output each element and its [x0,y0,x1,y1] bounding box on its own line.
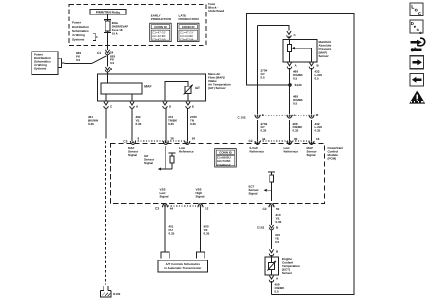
svg-text:0.5: 0.5 [261,76,265,79]
C102 pin L [287,115,292,118]
IAT thermistor [185,86,191,93]
svg-text:459: 459 [275,283,280,286]
PCM internal horiz to pullup [161,168,173,170]
relay PWR/TRN Relay box [90,9,126,14]
connector dotted link C2 row [260,140,310,142]
svg-text:0.35: 0.35 [88,122,94,125]
MAF pin A [130,102,134,105]
svg-text:C3=80 GY: C3=80 GY [217,163,231,166]
ECT pin A connector [269,276,273,279]
arrow IAT signal [158,168,161,171]
pin 90 [287,141,292,144]
connector C1 [105,50,109,53]
svg-text:34: 34 [262,137,265,140]
svg-text:Sensor: Sensor [282,272,292,275]
wire IAT to pin E [187,93,189,101]
svg-text:Module: Module [328,154,339,157]
svg-text:451: 451 [88,116,93,119]
pin 34 [255,141,260,144]
svg-text:410: 410 [275,234,280,237]
svg-text:15 A: 15 A [112,32,118,35]
svg-text:Reference: Reference [284,150,299,153]
svg-text:Signal: Signal [307,154,316,157]
svg-text:432: 432 [315,70,320,73]
svg-text:L: L [411,4,414,10]
wire 469 OG/BK pin A to C102 L [289,68,291,115]
wire 492 MAF signal [131,108,133,141]
svg-text:EARLY: EARLY [151,14,161,17]
svg-text:0.5: 0.5 [275,240,279,243]
svg-text:Manifold: Manifold [319,41,331,44]
svg-text:Systems: Systems [34,67,46,70]
svg-text:Low: Low [179,147,185,150]
pin 8 [131,141,136,144]
svg-text:472: 472 [168,116,173,119]
svg-text:C2: C2 [249,139,253,143]
svg-text:SNSR/EVAP: SNSR/EVAP [112,25,129,28]
wire C1 to MAF connector [107,55,109,67]
wire 469 OG/BK 0.35 to pin 90 [289,120,291,141]
svg-text:0.5: 0.5 [315,77,319,80]
C102 pin K [255,115,260,118]
svg-text:Sensor: Sensor [128,150,138,153]
svg-text:BK/WH: BK/WH [88,119,98,122]
MAP pin C connector [287,31,291,34]
svg-text:C 102: C 102 [238,116,246,119]
svg-text:0.35: 0.35 [293,129,299,132]
pin 12 [198,204,203,207]
wire 400 YE [200,207,202,252]
MAF pin D [163,102,167,105]
svg-text:C2=42 BK: C2=42 BK [152,34,165,37]
svg-text:PK: PK [110,58,114,61]
svg-text:0.35: 0.35 [276,220,282,223]
icon LOC [410,3,423,16]
wire 459 low reference routing loop [247,14,355,295]
wire 472 IAT signal [165,108,167,141]
svg-text:Intake: Intake [208,80,217,83]
svg-text:0.35: 0.35 [169,232,175,235]
svg-text:C: C [294,34,296,37]
svg-text:432: 432 [315,122,320,125]
svg-text:C1=58 BU: C1=58 BU [217,156,231,159]
wire 2704 GY 0.35 to pin 34 [257,120,259,141]
svg-text:Distribution: Distribution [72,25,89,28]
svg-text:Temperature: Temperature [282,265,300,268]
connector dotted link 44-12 [168,205,198,207]
pin 50 [185,141,190,144]
svg-text:Schematics: Schematics [72,30,89,33]
PCM pull-up resistor (ECT) [268,171,275,173]
svg-text:90: 90 [294,137,297,140]
wire MAF element to pin C [105,94,107,101]
svg-text:GY: GY [261,126,265,129]
svg-text:Power: Power [72,21,81,24]
svg-text:Low: Low [284,147,290,150]
svg-text:D: D [169,105,171,108]
svg-text:0.35: 0.35 [315,129,321,132]
svg-text:Sensor: Sensor [319,55,329,58]
svg-text:Underhood: Underhood [208,9,224,12]
MAF inner element [101,83,142,94]
wire IAT loop pin D [165,82,188,102]
wire MAF element to pin A [131,94,133,101]
svg-text:Air Temperature: Air Temperature [208,83,231,86]
MAP potentiometer [288,44,292,51]
ground G103 [101,291,111,297]
svg-text:IAT: IAT [195,86,200,90]
svg-text:0.35: 0.35 [190,122,196,125]
off-page bracket right [196,252,204,258]
svg-text:YE: YE [204,229,208,232]
svg-text:VSS: VSS [160,188,166,191]
svg-text:e: e [414,25,417,30]
svg-text:TN/BK: TN/BK [168,119,177,122]
svg-text:469: 469 [293,122,298,125]
svg-text:Engine: Engine [282,258,292,261]
svg-text:0.5: 0.5 [76,58,80,61]
svg-text:Flow (MAF)/: Flow (MAF)/ [208,76,225,79]
svg-text:B: B [276,250,278,253]
svg-text:C3=47 NA: C3=47 NA [180,38,194,41]
svg-text:24: 24 [110,51,113,54]
svg-text:401: 401 [169,225,174,228]
svg-text:A: A [295,64,297,67]
svg-text:410: 410 [276,214,281,217]
bracket from power dist box [59,58,65,67]
MAP pin A connector [287,62,291,65]
PCM CONN ID table [215,149,237,167]
svg-text:50: 50 [192,137,195,140]
svg-text:19: 19 [316,137,319,140]
svg-text:Schematics: Schematics [34,60,51,63]
svg-text:c: c [418,11,421,17]
svg-text:Low: Low [160,192,166,195]
connector C152 [269,225,273,228]
ECT thermistor [269,262,275,269]
svg-text:(PCM): (PCM) [328,157,337,160]
svg-text:0.35: 0.35 [168,122,174,125]
svg-text:in Automatic Transmission: in Automatic Transmission [164,266,201,269]
svg-text:CONN ID: CONN ID [182,26,195,29]
svg-text:C3=47 NA: C3=47 NA [152,38,166,41]
svg-text:L: L [294,114,296,117]
svg-text:0.5: 0.5 [275,290,279,293]
wire 432 L-GN pin B to C102 M [311,68,313,115]
svg-text:Reference: Reference [250,150,265,153]
MAF/IAT sensor box [97,74,205,101]
svg-text:Signal: Signal [249,192,258,195]
svg-text:OG/BK: OG/BK [275,287,285,290]
svg-text:CONN ID: CONN ID [154,26,167,29]
off-page bracket left [161,252,169,258]
svg-text:in Wiring: in Wiring [34,64,47,67]
svg-text:B: B [317,64,319,67]
wire 451 to ground (solid part) [105,108,107,138]
box: A/T Controls Schematics in Automatic Transmission [158,260,208,272]
svg-text:C: C [110,105,112,108]
svg-text:0.35: 0.35 [136,122,142,125]
svg-text:PWR/TRN Relay: PWR/TRN Relay [96,11,120,15]
svg-text:MAP: MAP [307,147,314,150]
pin 38 [163,141,168,144]
C102 pin M [309,115,314,118]
svg-text:Control: Control [328,150,339,153]
wire 410 YE (PCM to C152) [271,207,273,225]
svg-text:0.5: 0.5 [293,77,297,80]
svg-text:s: s [417,28,420,33]
svg-text:PRODUCTION: PRODUCTION [151,18,171,21]
MAP sensor box [283,40,317,62]
svg-text:492: 492 [136,116,141,119]
wire 2760 low ref [186,108,188,141]
svg-text:Fuse 18: Fuse 18 [112,29,123,32]
svg-text:VSS: VSS [196,188,202,191]
svg-text:44: 44 [170,207,173,210]
svg-text:12: 12 [205,207,208,210]
svg-text:GY: GY [261,73,265,76]
svg-text:K: K [262,114,264,117]
svg-text:0.35: 0.35 [204,232,210,235]
wire 451 dashed run to G103 [105,141,107,285]
pin 44 [163,204,168,207]
connector at MAF pin B [105,67,109,70]
wire 459 OG/BK from ECT [271,281,273,295]
svg-text:8: 8 [138,137,140,140]
svg-text:YE: YE [276,217,280,220]
bracket to fuse [93,34,97,41]
svg-text:Signal: Signal [196,195,205,198]
MAP pin B connector [309,62,313,65]
svg-text:0.5: 0.5 [293,102,297,105]
svg-text:MAF: MAF [128,147,135,150]
wire 401 PU [164,207,166,252]
svg-text:ENG: ENG [112,22,118,25]
icon DESC [410,20,423,33]
arrow ECT signal [264,189,267,192]
wire 2704 GY loop from MAP pin C [258,26,290,31]
svg-text:C1: C1 [97,51,101,55]
icon jump arrow [410,41,417,43]
svg-text:Sensor: Sensor [249,189,259,192]
svg-text:A: A [136,105,138,108]
svg-text:PRODUCTION: PRODUCTION [179,18,199,21]
svg-text:Sensor: Sensor [144,158,154,161]
svg-text:(ECT): (ECT) [282,268,290,271]
svg-text:c: c [419,31,422,36]
svg-text:IAT: IAT [144,155,149,158]
svg-text:OG/BK: OG/BK [293,126,303,129]
svg-text:Coolant: Coolant [282,261,293,264]
svg-text:TN: TN [190,119,194,122]
svg-text:Signal: Signal [160,195,169,198]
connector dotted link C3 row [135,140,185,142]
svg-text:LATE: LATE [179,14,187,17]
svg-text:469: 469 [293,70,298,73]
svg-text:Powertrain: Powertrain [328,147,344,150]
svg-text:(MAP): (MAP) [319,51,328,54]
svg-text:A/T Controls Schematics: A/T Controls Schematics [166,263,200,266]
svg-text:M: M [316,114,319,117]
svg-text:PU: PU [169,229,173,232]
svg-text:Power: Power [34,53,43,56]
svg-text:55: 55 [276,207,279,210]
svg-text:in Wiring: in Wiring [72,34,85,37]
svg-text:Signal: Signal [128,154,137,157]
svg-text:839: 839 [110,55,115,58]
svg-text:C3: C3 [123,140,127,144]
svg-text:0.5: 0.5 [110,62,114,65]
wire into MAF box [107,72,109,74]
svg-text:Pressure: Pressure [319,48,332,51]
svg-text:C1=47 GY: C1=47 GY [152,31,166,34]
svg-text:MAF: MAF [144,85,151,89]
MAF pin C [104,102,108,105]
svg-text:PK: PK [76,55,80,58]
icon warning triangle [409,91,425,104]
svg-text:C2=73 BK: C2=73 BK [217,160,231,163]
svg-text:5-Volt: 5-Volt [250,147,258,150]
svg-text:Mass Air: Mass Air [208,73,220,76]
svg-text:S140: S140 [295,84,302,87]
pin 19 [309,141,314,144]
ECT sensor box [265,257,279,275]
wire from power dist box [64,62,92,64]
svg-text:CONN ID: CONN ID [219,151,232,154]
PCM internal wire ECT [271,188,273,201]
PCM internal wire pin 38 [165,146,167,169]
svg-text:ECT: ECT [249,185,255,188]
fuse ENG SNSR/EVAP Fuse 18 [104,19,111,21]
svg-text:38: 38 [170,137,173,140]
pin 55 [269,204,274,207]
PCM pull-up resistor (IAT) [169,152,176,154]
MAF pin E [186,102,190,105]
svg-text:C3: C3 [155,207,159,211]
svg-text:YE: YE [136,119,140,122]
svg-text:2760: 2760 [190,116,197,119]
svg-text:G103: G103 [113,293,120,296]
MAP wiper wire to pin B [311,48,313,62]
wire relay to fuse [107,14,109,20]
ECT pin B connector [269,249,273,252]
svg-text:Reference: Reference [179,150,194,153]
svg-text:Distribution: Distribution [34,57,51,60]
svg-text:L-GN: L-GN [315,126,322,129]
svg-text:C1=47 GY: C1=47 GY [180,31,194,34]
icon prev arrow [410,74,424,87]
svg-text:High: High [196,192,203,195]
wire 410 YE (C152 to ECT) [271,230,273,249]
svg-text:2704: 2704 [261,69,268,72]
svg-text:OG/BK: OG/BK [293,74,303,77]
svg-text:OG/BK: OG/BK [293,99,303,102]
svg-text:B: B [276,226,278,229]
svg-text:C2: C2 [263,207,267,211]
box: Power Distribution Schematics in Wiring Systems [32,52,58,75]
svg-text:L-GN: L-GN [315,74,322,77]
svg-text:o: o [415,7,418,13]
svg-text:(IAT) Sensor: (IAT) Sensor [208,87,226,90]
wire 2704 GY down to C102 K [257,26,259,115]
wire 432 L-GN 0.35 to pin 19 [311,120,313,141]
svg-text:Fuse: Fuse [208,3,215,6]
svg-text:Signal: Signal [144,162,153,165]
svg-text:400: 400 [204,225,209,228]
svg-text:Absolute: Absolute [319,44,332,47]
svg-text:B: B [110,68,112,71]
fuse block underhood dashed boundary [69,4,206,45]
svg-text:C2=60 BK: C2=60 BK [180,34,193,37]
svg-text:YE: YE [275,237,279,240]
svg-text:0.35: 0.35 [261,129,267,132]
wire fuse to C1 [107,33,109,50]
svg-text:Sensor: Sensor [307,150,317,153]
svg-text:C152: C152 [257,226,264,229]
svg-text:Systems: Systems [72,38,84,41]
svg-text:E: E [192,105,194,108]
connector C102 dotted link [260,115,309,117]
icon next arrow [410,56,424,69]
svg-text:2704: 2704 [261,122,268,125]
svg-text:469: 469 [293,95,298,98]
PCM boundary dashed box [110,144,324,204]
svg-text:Block -: Block - [208,6,218,9]
svg-text:839: 839 [76,52,81,55]
svg-text:A: A [276,277,278,280]
wire B to MAF element [107,74,109,83]
diagonal wire to C1 splice [92,56,107,64]
